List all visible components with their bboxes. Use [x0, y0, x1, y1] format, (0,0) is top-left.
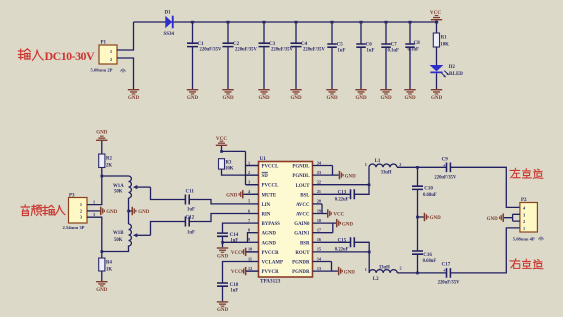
power port VCC pin10 PVCCR	[231, 248, 259, 256]
svg-text:GND: GND	[138, 210, 150, 215]
resistor R1	[433, 33, 449, 48]
U1 pin 2 SD	[246, 170, 268, 179]
label: right channel text	[510, 259, 543, 269]
svg-text:C17: C17	[442, 262, 451, 267]
svg-text:1K: 1K	[106, 268, 112, 273]
svg-text:+: +	[295, 41, 298, 47]
U1 pin 14 PGNDR	[292, 256, 331, 265]
wire pin15 ROUT	[313, 251, 370, 253]
svg-text:C9: C9	[442, 158, 449, 163]
ground under C7	[380, 89, 392, 101]
power port GND P2	[487, 214, 504, 222]
wire R2 to junction	[101, 168, 103, 177]
wire L1 to C9	[397, 166, 446, 168]
U1 pin 13 PGNDR	[292, 262, 331, 276]
capacitor C5	[327, 21, 345, 89]
svg-text:5: 5	[248, 199, 250, 204]
svg-text:13: 13	[317, 266, 321, 271]
label: audio input text	[21, 205, 65, 216]
ground under C5	[326, 89, 338, 101]
svg-text:R2: R2	[106, 157, 112, 162]
svg-text:C16: C16	[423, 253, 432, 258]
U1 pin 15 ROUT	[295, 247, 321, 256]
U1 pin 9 AGND	[246, 237, 276, 246]
node L1/C10	[416, 166, 419, 169]
U1 pin 10 PVCCR	[246, 247, 279, 256]
capacitor C12	[185, 215, 195, 235]
wire R4 to ground	[101, 271, 103, 281]
wire C17 to right channel P2 pin1	[450, 228, 520, 273]
svg-text:PGNDL: PGNDL	[292, 165, 310, 170]
svg-text:D1: D1	[165, 11, 172, 16]
U1 pin 7 BYPASS	[246, 218, 280, 227]
svg-text:220uF/35V: 220uF/35V	[200, 48, 222, 53]
svg-text:2K: 2K	[106, 164, 112, 169]
svg-text:L2: L2	[373, 277, 379, 282]
wire C11 to pin5 LIN	[189, 200, 246, 204]
capacitor C15	[335, 237, 355, 252]
svg-text:C14: C14	[230, 233, 239, 238]
svg-text:PGNDL: PGNDL	[292, 174, 310, 179]
node ROUT/C15	[368, 251, 371, 254]
power port VCC pin12 PVVCR	[231, 267, 259, 275]
svg-text:C6: C6	[366, 43, 373, 48]
svg-text:+: +	[227, 41, 230, 47]
wire C9 to left channel P2 pin4	[450, 167, 520, 207]
power port VCC top	[430, 10, 442, 33]
capacitor C18	[217, 283, 239, 293]
wire C13 to LOUT node	[354, 185, 369, 195]
power port VCC left of IC	[216, 136, 228, 151]
svg-text:C10: C10	[424, 186, 433, 191]
wire pin7 BYPASS to C14	[223, 223, 247, 233]
LED D2	[430, 65, 464, 77]
svg-text:LOUT: LOUT	[296, 184, 311, 189]
svg-text:C5: C5	[337, 43, 344, 48]
svg-text:C18: C18	[230, 283, 239, 288]
connector P1	[91, 41, 126, 73]
ground under D2	[431, 89, 443, 101]
svg-text:1: 1	[365, 162, 367, 167]
label: left channel text	[510, 168, 543, 178]
wire R3 to pin2 SD	[222, 169, 259, 175]
node L2/C16	[416, 272, 419, 275]
wire pin21 BSL to C13	[313, 193, 351, 195]
svg-text:50K: 50K	[114, 189, 123, 194]
U1 pin 3 PVCCL	[246, 180, 279, 189]
capacitor C8	[405, 21, 420, 89]
svg-text:8: 8	[248, 228, 250, 233]
wire P3 pin3 down to junction	[87, 217, 102, 251]
capacitor C6	[356, 21, 374, 89]
svg-text:VCC: VCC	[231, 270, 242, 275]
svg-text:1uF: 1uF	[187, 230, 195, 235]
svg-text:24: 24	[317, 160, 322, 165]
svg-text:C1: C1	[198, 42, 205, 47]
svg-text:12: 12	[248, 266, 252, 271]
svg-text:15: 15	[317, 247, 321, 252]
svg-text:1uF: 1uF	[230, 288, 238, 293]
svg-text:C13: C13	[338, 190, 347, 195]
svg-text:W1B: W1B	[113, 231, 124, 236]
svg-text:220uF/35V: 220uF/35V	[438, 280, 460, 285]
resistor R3	[219, 159, 234, 172]
capacitor C9	[434, 158, 456, 181]
ground under R4	[96, 281, 108, 293]
svg-text:17: 17	[317, 228, 321, 233]
svg-text:PGNDR: PGNDR	[292, 270, 310, 275]
svg-text:PGNDR: PGNDR	[292, 261, 310, 266]
svg-text:PVVCR: PVVCR	[262, 270, 280, 275]
wire pins 8,9 AGND	[223, 233, 259, 243]
wire L2 to C17	[397, 272, 446, 274]
svg-text:C15: C15	[338, 238, 347, 243]
power port GND above R2	[96, 131, 108, 155]
svg-text:SD: SD	[262, 174, 269, 179]
svg-text:GND: GND	[345, 174, 357, 179]
svg-text:19: 19	[317, 208, 321, 213]
svg-text:1: 1	[80, 202, 82, 207]
power port VCC pins 19,20	[322, 209, 345, 217]
U1 pin 4 MUTE	[246, 189, 277, 198]
svg-text:AGND: AGND	[262, 232, 277, 237]
svg-text:+: +	[443, 163, 446, 169]
node LOUT/C13	[368, 183, 371, 186]
ground under C4	[290, 89, 302, 101]
svg-text:VCLAMP: VCLAMP	[262, 261, 283, 266]
svg-text:2.54mm 3P: 2.54mm 3P	[63, 225, 85, 230]
svg-text:4: 4	[248, 189, 251, 194]
svg-text:3: 3	[93, 212, 95, 217]
wire pin16 BSR to C15	[313, 241, 351, 243]
resistor R4	[99, 258, 113, 273]
svg-text:0.22uF: 0.22uF	[335, 198, 349, 203]
U1 pin 6 RIN	[246, 208, 271, 217]
svg-text:C8: C8	[414, 41, 421, 46]
svg-text:220uF/35V: 220uF/35V	[235, 48, 257, 53]
power port GND P3 pin2	[87, 207, 118, 215]
ground under C3	[258, 89, 270, 101]
U1 pin 5 LIN	[246, 199, 271, 208]
svg-text:C7: C7	[391, 43, 398, 48]
connector P3	[63, 193, 88, 230]
svg-text:3: 3	[523, 212, 525, 217]
label: input DC text	[18, 49, 95, 63]
svg-text:W1A: W1A	[113, 184, 124, 189]
inductor L2	[365, 266, 402, 283]
svg-text:10K: 10K	[225, 167, 234, 172]
wire pin11 VCLAMP to C18	[223, 262, 247, 284]
capacitor C7	[381, 21, 399, 89]
wire junction to W1A top	[102, 175, 129, 177]
wire R1 to D2	[436, 47, 438, 65]
U1 pin 1 PVCCL	[246, 160, 279, 169]
svg-text:ROUT: ROUT	[295, 251, 310, 256]
svg-text:33uH: 33uH	[381, 171, 392, 176]
node AGND/C14gnd	[221, 241, 224, 244]
svg-text:2: 2	[248, 170, 250, 175]
wire W1A bottom to W1B top	[128, 198, 130, 224]
power port GND pins 17,18	[333, 219, 354, 227]
svg-text:R3: R3	[226, 161, 232, 166]
U1 pin 20 AVCC	[296, 199, 322, 208]
svg-text:23: 23	[317, 170, 321, 175]
svg-text:220uF/35V: 220uF/35V	[303, 48, 325, 53]
svg-text:VCC: VCC	[231, 251, 242, 256]
svg-text:3: 3	[80, 215, 82, 220]
wire D2 to ground	[436, 73, 438, 89]
U1 pin 21 BSL	[300, 189, 321, 198]
svg-text:+: +	[443, 268, 446, 274]
svg-text:2: 2	[523, 219, 525, 224]
svg-text:MUTE: MUTE	[262, 193, 277, 198]
svg-text:C2: C2	[233, 42, 240, 47]
U1 pin 19 AVCC	[296, 204, 322, 218]
svg-text:2: 2	[399, 162, 401, 167]
svg-text:11: 11	[248, 256, 252, 261]
wire C12 to pin6 RIN	[189, 214, 246, 222]
svg-text:1: 1	[523, 226, 525, 231]
svg-text:+: +	[263, 41, 266, 47]
svg-text:9: 9	[248, 237, 250, 242]
ground under C8	[404, 89, 416, 101]
power port GND pins 13,14	[332, 267, 356, 275]
potentiometer W1A	[113, 176, 151, 198]
svg-text:220uF/35V: 220uF/35V	[434, 175, 456, 180]
capacitor C16	[412, 251, 436, 264]
svg-text:0.1uF: 0.1uF	[408, 48, 419, 53]
svg-text:GND: GND	[226, 193, 238, 198]
svg-text:1uF: 1uF	[187, 208, 195, 213]
svg-text:16: 16	[317, 237, 321, 242]
ground under P1	[128, 89, 140, 101]
svg-text:1: 1	[365, 267, 367, 272]
svg-text:BSL: BSL	[300, 193, 310, 198]
ground under C1	[187, 89, 199, 101]
wire top rail	[134, 21, 437, 23]
node R4/W1B/P3pin3	[101, 250, 104, 253]
svg-text:GAIN1: GAIN1	[294, 232, 310, 237]
svg-text:D2: D2	[449, 65, 456, 70]
svg-text:5.08mm 4P: 5.08mm 4P	[513, 236, 535, 241]
svg-text:0.68uF: 0.68uF	[423, 193, 437, 198]
ground under C18	[217, 301, 229, 313]
ground under C2	[222, 89, 234, 101]
svg-text:GND: GND	[487, 217, 499, 222]
svg-text:10K: 10K	[440, 43, 449, 48]
svg-text:21: 21	[317, 189, 321, 194]
svg-text:2: 2	[400, 266, 402, 271]
connector P2	[513, 198, 544, 242]
svg-text:C12: C12	[186, 215, 195, 220]
wire mid vertical C10 upper	[417, 167, 419, 186]
U1 pin 11 VCLAMP	[246, 256, 283, 265]
node mid GND tap	[416, 216, 419, 219]
svg-text:LIN: LIN	[262, 203, 271, 208]
U1 pin 22 LOUT	[296, 180, 321, 190]
wire C18 to ground	[222, 286, 224, 301]
capacitor C3	[259, 21, 294, 89]
svg-text:0.68uF: 0.68uF	[423, 259, 437, 264]
capacitor C2	[223, 21, 258, 89]
capacitor C4	[291, 21, 326, 89]
wire P2 pins 2,3 tie	[504, 214, 520, 221]
svg-text:+: +	[191, 41, 194, 47]
svg-text:1: 1	[248, 160, 250, 165]
svg-text:SS34: SS34	[164, 32, 175, 37]
capacitor C17	[438, 262, 460, 285]
ground under C14	[217, 247, 229, 259]
wire W1A wiper to C11	[151, 187, 186, 199]
capacitor C11	[185, 189, 195, 212]
svg-text:1uF: 1uF	[338, 49, 346, 54]
svg-text:3: 3	[248, 180, 250, 185]
svg-text:RLED: RLED	[449, 72, 463, 77]
U1 pin 24 PGNDL	[292, 160, 332, 169]
node pot midpoint	[127, 210, 130, 213]
ground under C6	[355, 89, 367, 101]
wire W1B wiper to C12	[151, 222, 186, 236]
svg-text:GND: GND	[342, 222, 354, 227]
wire VCC junction to pins 1,3 PVCCL	[222, 151, 259, 184]
svg-text:RIN: RIN	[262, 213, 271, 218]
U1 pin 17 GAIN1	[294, 223, 333, 237]
capacitor C1	[187, 21, 222, 89]
svg-text:5.08mm 2P: 5.08mm 2P	[91, 68, 113, 73]
svg-text:C4: C4	[301, 42, 308, 47]
svg-text:10: 10	[248, 247, 252, 252]
svg-text:220uF/35V: 220uF/35V	[271, 48, 293, 53]
svg-text:C3: C3	[269, 42, 276, 47]
svg-text:PVCCR: PVCCR	[262, 251, 280, 256]
svg-text:PVCCL: PVCCL	[262, 184, 280, 189]
capacitor C14	[217, 233, 239, 244]
svg-text:R4: R4	[106, 261, 112, 266]
svg-text:20: 20	[317, 199, 321, 204]
svg-text:18: 18	[317, 218, 321, 223]
inductor L1	[365, 159, 402, 175]
svg-text:6: 6	[248, 208, 250, 213]
svg-text:1uF: 1uF	[367, 49, 375, 54]
resistor R2	[99, 154, 113, 169]
svg-text:GND: GND	[344, 270, 356, 275]
wire C14 to ground	[222, 236, 224, 247]
wire C15 to ROUT node	[354, 242, 369, 273]
svg-text:7: 7	[248, 218, 250, 223]
U1 pin 8 AGND	[248, 228, 276, 237]
svg-text:GAIN0: GAIN0	[294, 222, 310, 227]
svg-text:AGND: AGND	[262, 241, 277, 246]
op-amp U1 TPA3123 body	[259, 156, 313, 285]
svg-text:DC10-30V: DC10-30V	[45, 49, 95, 63]
node R2/W1A/P3pin1	[101, 175, 104, 178]
capacitor C10	[412, 186, 437, 198]
wire P1 pin2 down	[117, 58, 134, 89]
U1 pin 16 BSR	[300, 237, 321, 246]
diode D1	[164, 11, 175, 38]
svg-text:VCC: VCC	[333, 213, 344, 218]
svg-text:0.1uF: 0.1uF	[388, 49, 399, 54]
svg-text:22: 22	[317, 180, 321, 185]
svg-text:TPA3123: TPA3123	[260, 279, 281, 285]
power port GND pin4 MUTE	[226, 190, 258, 198]
wire pin22 LOUT to L1	[313, 167, 370, 184]
svg-text:BSR: BSR	[300, 241, 310, 246]
node VCC/R3 junction	[220, 150, 223, 153]
wire mid vertical lower	[417, 254, 419, 273]
wire P3 pin1 up to junction	[87, 176, 102, 205]
svg-text:2: 2	[80, 208, 82, 213]
power port GND mid filter	[418, 213, 442, 221]
capacitor C13	[335, 189, 355, 202]
svg-text:GND: GND	[96, 131, 108, 136]
svg-text:PVCCL: PVCCL	[262, 165, 280, 170]
U1 pin 12 PVVCR	[246, 266, 279, 275]
wire W1B bottom to lower junction	[102, 246, 129, 252]
U1 pin 23 PGNDL	[292, 166, 332, 180]
svg-text:GND: GND	[430, 216, 442, 221]
svg-text:R1: R1	[441, 36, 447, 41]
svg-text:GND: GND	[106, 210, 118, 215]
potentiometer W1B	[113, 224, 151, 246]
svg-text:14: 14	[317, 256, 322, 261]
U1 pin 18 GAIN0	[294, 218, 333, 227]
svg-text:BYPASS: BYPASS	[262, 222, 281, 227]
svg-text:50K: 50K	[114, 238, 123, 243]
power port GND pins 23,24	[333, 171, 357, 179]
wire P1 pin1 to rail	[117, 22, 134, 50]
svg-text:AVCC: AVCC	[296, 203, 310, 208]
svg-text:AVCC: AVCC	[296, 213, 310, 218]
power port GND pot midpoint	[129, 207, 150, 215]
svg-text:1: 1	[93, 200, 95, 205]
svg-text:C11: C11	[186, 189, 195, 194]
wire mid vertical between C10 and C16	[417, 189, 419, 251]
wire junction to R4	[101, 252, 103, 259]
